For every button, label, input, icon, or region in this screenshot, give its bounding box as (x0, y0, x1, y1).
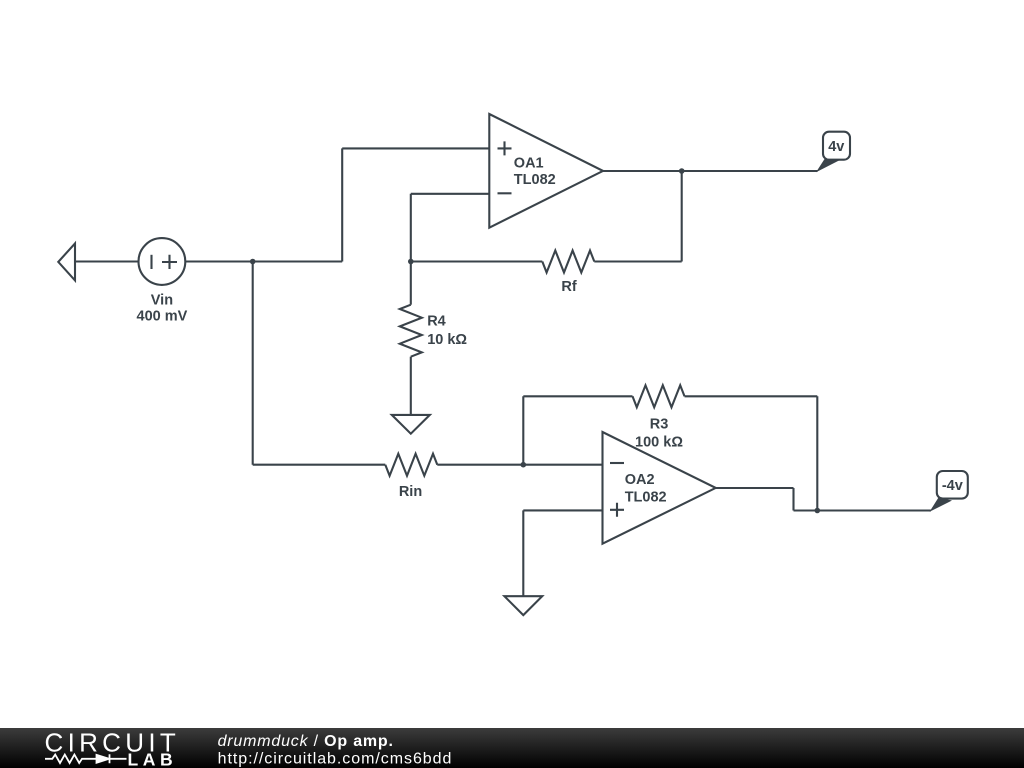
wire node B to Rf (411, 260, 543, 262)
wire node A down left column (252, 262, 254, 465)
op-amp OA1 (489, 114, 603, 228)
label Rf (561, 279, 576, 295)
wire OA1 inverting input (411, 193, 490, 195)
wire step to node E (794, 509, 818, 511)
ground below OA2 (504, 596, 542, 615)
resistor R3 (633, 385, 685, 407)
op-amp OA2 (603, 432, 716, 544)
wire arrow to source (75, 260, 139, 262)
svg-text:Rin: Rin (399, 484, 422, 500)
svg-text:drummduck / Op amp.: drummduck / Op amp. (218, 733, 394, 750)
wire node C to 4v flag (682, 170, 818, 172)
node E junction (815, 508, 821, 514)
label OA2 TL082 (625, 472, 667, 506)
wire to OA1 noninverting input (342, 147, 489, 149)
node A junction (250, 259, 256, 265)
svg-text:-4v: -4v (942, 478, 963, 494)
logo resistor-diode symbol (45, 754, 127, 763)
svg-text:OA1: OA1 (514, 156, 544, 172)
wire R4 to ground (410, 357, 412, 415)
node D junction (521, 462, 527, 468)
label Rin (399, 484, 422, 500)
label -4v (942, 478, 963, 494)
wire node B down to R4 (410, 262, 412, 305)
wire R3 right segment (685, 395, 818, 397)
ground below R4 (392, 415, 430, 434)
label R4 10 kOhm (427, 314, 467, 348)
wire noninverting down to ground (522, 510, 524, 596)
wire OA1 output (603, 170, 682, 172)
wire node C down to Rf (681, 171, 683, 262)
svg-text:TL082: TL082 (625, 490, 667, 506)
resistor Rf (542, 251, 594, 273)
wire Rin to node D (437, 464, 523, 466)
svg-text:400 mV: 400 mV (137, 309, 188, 325)
node B junction (408, 259, 414, 265)
net flag -4v (930, 471, 968, 512)
svg-text:100 kΩ: 100 kΩ (635, 435, 683, 451)
input port arrow Vin (58, 243, 75, 280)
wire left column to Rin (253, 464, 386, 466)
net flag 4v (816, 132, 850, 173)
svg-text:LAB: LAB (128, 750, 178, 768)
node C junction (679, 168, 685, 174)
svg-text:R3: R3 (650, 417, 669, 433)
credit line url (218, 751, 453, 768)
wire source to node A (185, 260, 252, 262)
label 4v (828, 139, 844, 155)
wire OA2 output (716, 487, 794, 489)
logo wordmark CIRCUIT (45, 728, 181, 758)
voltage source Vin (139, 238, 186, 285)
credit line author / title (218, 733, 394, 750)
label Vin 400 mV (137, 293, 188, 325)
wire inverting input down to node B (410, 194, 412, 262)
logo wordmark LAB (128, 750, 178, 768)
label OA1 TL082 (514, 156, 556, 189)
svg-text:Rf: Rf (561, 279, 576, 295)
wire Rf to node C drop (594, 260, 681, 262)
wire riser up (341, 148, 343, 261)
label R3 100 kOhm (635, 417, 683, 451)
wire output step down (792, 488, 794, 511)
wire OA2 noninverting input (523, 509, 602, 511)
wire node E to -4v flag (817, 509, 931, 511)
wire node D to OA2 inverting input (523, 464, 602, 466)
svg-text:R4: R4 (427, 314, 446, 330)
svg-text:TL082: TL082 (514, 172, 556, 188)
wire R3 down to node E (816, 396, 818, 510)
svg-text:http://circuitlab.com/cms6bdd: http://circuitlab.com/cms6bdd (218, 751, 453, 768)
resistor R4 (400, 305, 422, 357)
wire node D up to R3 (522, 396, 524, 464)
svg-text:10 kΩ: 10 kΩ (427, 332, 467, 348)
svg-text:OA2: OA2 (625, 472, 655, 488)
resistor Rin (385, 454, 437, 476)
wire R3 left segment (523, 395, 632, 397)
wire node A to riser (253, 260, 343, 262)
svg-text:4v: 4v (828, 139, 844, 155)
svg-text:Vin: Vin (151, 293, 173, 309)
